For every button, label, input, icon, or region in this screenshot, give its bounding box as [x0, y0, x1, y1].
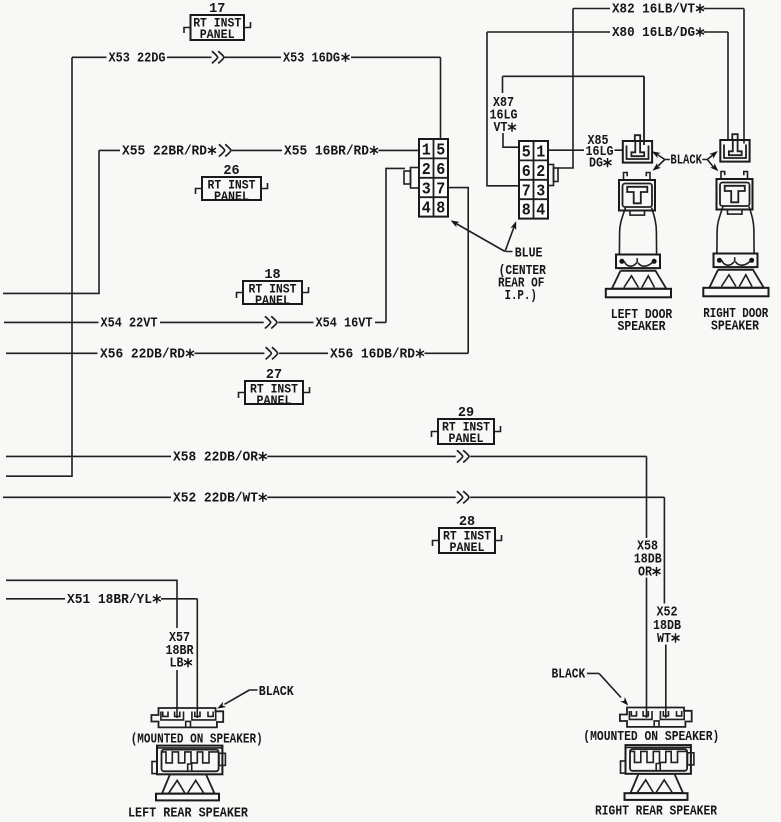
svg-text:X51 18BR/YL: X51 18BR/YL	[67, 592, 152, 608]
wire X52 22DB/WT horizontal y497	[3, 496, 664, 498]
svg-text:DG: DG	[589, 157, 603, 172]
wire X53 vertical into left connector pin 5	[440, 57, 442, 139]
svg-text:X56 16DB/RD: X56 16DB/RD	[330, 346, 415, 362]
svg-text:PANEL: PANEL	[449, 431, 484, 446]
svg-text:X52 22DB/WT: X52 22DB/WT	[173, 490, 258, 506]
wire X82 left vertical down to right 8-pin connector pin 2 tab	[558, 9, 573, 169]
connector 28 RT INST PANEL	[433, 515, 502, 555]
svg-text:BLACK: BLACK	[670, 154, 702, 169]
svg-text:8: 8	[436, 199, 445, 218]
svg-text:PANEL: PANEL	[257, 393, 292, 408]
wire X58 22DB/OR horizontal y456	[6, 455, 647, 457]
svg-text:RIGHT REAR SPEAKER: RIGHT REAR SPEAKER	[595, 805, 718, 820]
wire X53 22DG horizontal y57	[72, 56, 441, 58]
svg-text:SPEAKER: SPEAKER	[711, 320, 760, 335]
splice X56	[266, 347, 278, 359]
wire X85 16LG/DG net: pin1 to left door speaker	[548, 149, 623, 151]
svg-text:BLACK: BLACK	[259, 685, 295, 700]
wire X54 16VT vertical up to left connector pin 2 tab	[386, 168, 405, 322]
svg-text:PANEL: PANEL	[255, 293, 290, 308]
svg-text:5: 5	[522, 143, 531, 162]
connector 26 RT INST PANEL	[196, 164, 268, 204]
wire X87 16LG/VT net: pin5 to left door speaker	[503, 76, 645, 147]
label (CENTER REAR OF I.P.)	[498, 264, 547, 304]
svg-text:7: 7	[522, 181, 531, 200]
svg-text:LB: LB	[170, 657, 184, 672]
svg-text:X55 16BR/RD: X55 16BR/RD	[284, 143, 369, 159]
splice X58	[457, 450, 469, 462]
svg-text:2: 2	[536, 162, 545, 181]
wire X56 22DB/RD horizontal y353	[6, 352, 468, 354]
svg-text:WT: WT	[657, 632, 671, 647]
connector 27 RT INST PANEL	[239, 368, 310, 408]
wire X52 vertical down to right rear speaker	[664, 497, 665, 718]
svg-text:OR: OR	[638, 566, 653, 581]
svg-text:X54 16VT: X54 16VT	[316, 315, 373, 331]
wire X80 left vertical down to right 8-pin connector pin 7	[487, 32, 519, 186]
connector 17 RT INST PANEL	[184, 2, 251, 42]
connector 29 RT INST PANEL	[432, 406, 501, 446]
left rear speaker	[151, 708, 225, 800]
svg-text:(MOUNTED ON SPEAKER): (MOUNTED ON SPEAKER)	[583, 730, 719, 745]
svg-text:VT: VT	[494, 121, 508, 136]
BLACK label (left rear speaker connector)	[216, 685, 295, 711]
wire X57 stub from edge y580 down to left rear speaker	[6, 580, 177, 718]
splice X52	[457, 491, 469, 503]
wire X82 16LB/VT horizontal y8.5	[573, 8, 744, 10]
svg-text:8: 8	[522, 201, 531, 220]
wire X58 vertical down to right rear speaker	[646, 456, 648, 718]
wire into left door speaker (X87)	[643, 76, 645, 145]
svg-text:2: 2	[422, 160, 431, 179]
wire X55 horizontal y150	[99, 149, 419, 151]
right door speaker	[703, 134, 768, 296]
left door speaker	[606, 135, 671, 297]
svg-text:I.P.): I.P.)	[504, 289, 537, 304]
wire X82 right vertical down to right door speaker	[743, 9, 745, 144]
svg-text:X58 22DB/OR: X58 22DB/OR	[173, 449, 259, 465]
BLACK label (door speaker connectors) with 4 arrows	[650, 149, 720, 174]
svg-text:X53 22DG: X53 22DG	[109, 50, 166, 66]
wire X51 18BR/YL horizontal y599	[6, 599, 197, 718]
BLACK label (right rear speaker connector)	[552, 668, 631, 708]
svg-text:X55 22BR/RD: X55 22BR/RD	[122, 143, 207, 159]
svg-text:X82 16LB/VT: X82 16LB/VT	[612, 2, 695, 18]
wire X53 left vertical to page edge	[6, 57, 72, 476]
splice X53	[212, 51, 224, 63]
svg-text:SPEAKER: SPEAKER	[618, 320, 667, 335]
8-pin connector (left block, pins 1-8)	[404, 139, 448, 218]
svg-text:5: 5	[436, 141, 445, 160]
wire X80 16LB/DG horizontal y32	[487, 31, 728, 33]
wire X54 22VT horizontal y322	[4, 321, 386, 323]
splice X54	[265, 316, 277, 328]
wire X56 vertical up to left connector pin 7	[448, 188, 468, 354]
svg-text:X56 22DB/RD: X56 22DB/RD	[100, 346, 185, 362]
svg-text:6: 6	[522, 162, 531, 181]
svg-text:4: 4	[422, 199, 431, 218]
svg-text:PANEL: PANEL	[214, 189, 249, 204]
svg-text:7: 7	[436, 179, 445, 198]
svg-text:4: 4	[536, 201, 545, 220]
svg-text:X53 16DG: X53 16DG	[283, 50, 340, 66]
svg-text:3: 3	[422, 179, 431, 198]
connector 18 RT INST PANEL	[237, 268, 309, 308]
svg-text:PANEL: PANEL	[450, 540, 485, 555]
svg-text:6: 6	[436, 160, 445, 179]
svg-text:(MOUNTED ON SPEAKER): (MOUNTED ON SPEAKER)	[131, 733, 263, 748]
BLUE label with arrows to connectors	[449, 218, 542, 262]
svg-text:BLACK: BLACK	[552, 668, 587, 683]
svg-text:LEFT REAR SPEAKER: LEFT REAR SPEAKER	[128, 807, 249, 822]
8-pin connector (right block, pins 5-8/1-4)	[519, 141, 558, 220]
svg-text:X54 22VT: X54 22VT	[101, 315, 158, 331]
svg-text:3: 3	[536, 181, 545, 200]
wire X80 right vertical down to right door speaker	[727, 32, 729, 140]
svg-text:PANEL: PANEL	[200, 27, 235, 42]
svg-text:X80 16LB/DG: X80 16LB/DG	[612, 25, 695, 41]
svg-text:1: 1	[422, 141, 431, 160]
splice X55	[219, 144, 231, 156]
svg-text:BLUE: BLUE	[515, 247, 543, 262]
wire X55 stub from edge y293 up	[3, 150, 99, 293]
svg-text:1: 1	[536, 143, 545, 162]
right rear speaker	[620, 708, 694, 800]
